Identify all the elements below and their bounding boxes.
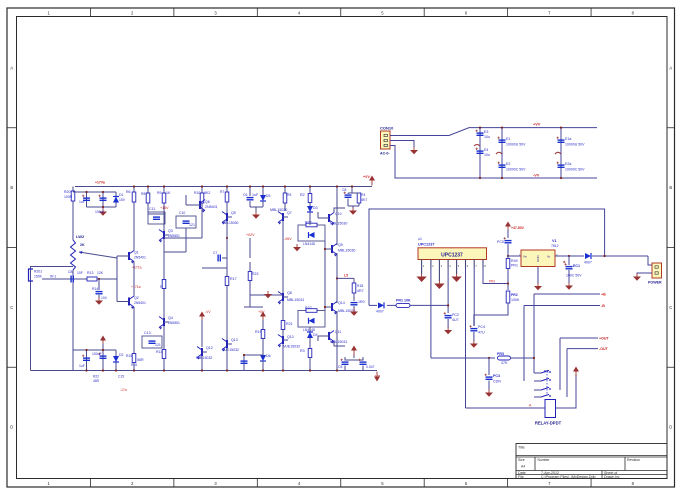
- svg-text:100uF: 100uF: [95, 210, 105, 214]
- svg-text:D4: D4: [313, 333, 318, 337]
- svg-text:Q8: Q8: [287, 291, 292, 295]
- svg-text:C: C: [10, 305, 13, 310]
- svg-text:10000U 50V: 10000U 50V: [565, 143, 585, 147]
- svg-text:10F: 10F: [77, 271, 83, 275]
- svg-text:R2: R2: [300, 193, 305, 197]
- svg-text:R22: R22: [305, 306, 312, 310]
- svg-text:RELAY-DPDT: RELAY-DPDT: [535, 421, 562, 426]
- svg-text:CON10: CON10: [380, 126, 394, 131]
- svg-text:+17Va: +17Va: [95, 181, 105, 185]
- svg-text:100uF: 100uF: [92, 352, 102, 356]
- svg-text:POWER: POWER: [648, 281, 662, 285]
- svg-text:V1: V1: [552, 239, 557, 243]
- svg-text:R5: R5: [287, 193, 291, 197]
- svg-text:PR2: PR2: [511, 293, 518, 297]
- svg-text:Drawn by:: Drawn by:: [604, 475, 620, 479]
- svg-text:+16V: +16V: [160, 206, 169, 210]
- svg-text:-VV: -VV: [205, 310, 211, 314]
- svg-text:E1: E1: [506, 137, 510, 141]
- svg-text:MBL15030: MBL15030: [270, 208, 287, 212]
- svg-text:MJE15032: MJE15032: [196, 356, 212, 360]
- svg-text:Q4: Q4: [168, 316, 173, 320]
- svg-text:0.047: 0.047: [366, 365, 375, 369]
- svg-text:4K7: 4K7: [361, 198, 367, 202]
- svg-text:Size: Size: [518, 458, 525, 462]
- svg-text:PC4: PC4: [478, 325, 485, 329]
- svg-text:121: 121: [155, 343, 161, 347]
- svg-text:Q10: Q10: [335, 212, 342, 216]
- svg-text:u1: u1: [418, 237, 422, 241]
- svg-text:Q5: Q5: [231, 211, 236, 215]
- svg-text:+B: +B: [601, 293, 606, 297]
- svg-text:2N5551: 2N5551: [168, 321, 180, 325]
- svg-text:+171a: +171a: [131, 285, 141, 289]
- svg-text:UPC1237: UPC1237: [441, 253, 463, 259]
- svg-text:Q9: Q9: [338, 243, 343, 247]
- svg-text:Revision: Revision: [627, 458, 640, 462]
- svg-text:Q14: Q14: [338, 301, 345, 305]
- svg-text:D2: D2: [119, 353, 124, 357]
- svg-text:1uF: 1uF: [79, 200, 85, 204]
- svg-text:PIN: PIN: [489, 280, 495, 284]
- svg-text:Q13: Q13: [231, 338, 238, 342]
- svg-text:D1: D1: [119, 193, 124, 197]
- svg-text:R7: R7: [220, 190, 224, 194]
- svg-text:L5: L5: [344, 274, 348, 278]
- svg-text:10000C 50V: 10000C 50V: [565, 168, 585, 172]
- svg-text:R22: R22: [305, 221, 312, 225]
- svg-text:+OUT: +OUT: [599, 337, 609, 341]
- svg-text:C5: C5: [338, 365, 343, 369]
- svg-text:LN4148: LN4148: [303, 242, 315, 246]
- svg-text:R18: R18: [357, 284, 363, 288]
- svg-text:E2a: E2a: [565, 162, 571, 166]
- svg-text:Vin: Vin: [523, 255, 527, 259]
- svg-text:47U: 47U: [478, 331, 485, 335]
- svg-text:B: B: [669, 185, 672, 190]
- svg-text:+02V: +02V: [246, 233, 255, 237]
- svg-text:4007: 4007: [584, 261, 592, 265]
- svg-text:IN 1: IN 1: [50, 275, 56, 279]
- svg-text:1uF: 1uF: [252, 193, 259, 197]
- svg-text:12K: 12K: [97, 271, 104, 275]
- svg-text:Q7: Q7: [287, 211, 292, 215]
- svg-text:R16: R16: [131, 363, 137, 367]
- svg-text:46R: 46R: [93, 379, 100, 383]
- svg-text:R9: R9: [157, 191, 161, 195]
- svg-text:GND: GND: [536, 255, 540, 263]
- svg-text:R23: R23: [252, 272, 258, 276]
- svg-text:R3: R3: [300, 349, 305, 353]
- svg-text:PC3: PC3: [493, 374, 500, 378]
- svg-text:R10: R10: [194, 191, 200, 195]
- svg-text:150K: 150K: [34, 275, 43, 279]
- svg-text:C8: C8: [68, 270, 73, 274]
- svg-text:Q3: Q3: [168, 229, 173, 233]
- svg-text:10000C 50V: 10000C 50V: [506, 168, 526, 172]
- svg-text:+47-50V: +47-50V: [511, 226, 525, 230]
- svg-text:A4: A4: [521, 465, 525, 469]
- svg-text:D5: D5: [266, 194, 270, 198]
- svg-text:PR1: PR1: [511, 264, 518, 268]
- svg-text:8K2: 8K2: [204, 191, 210, 195]
- svg-text:D: D: [669, 425, 672, 430]
- svg-text:AC-0-: AC-0-: [380, 152, 390, 156]
- svg-text:C15: C15: [118, 375, 124, 379]
- svg-text:Title: Title: [518, 445, 525, 449]
- svg-text:1uF: 1uF: [79, 364, 85, 368]
- svg-text:Q13: Q13: [287, 335, 294, 339]
- svg-text:2K: 2K: [80, 243, 85, 247]
- svg-text:D6: D6: [266, 354, 271, 358]
- svg-text:+171a: +171a: [132, 266, 142, 270]
- svg-text:121: 121: [189, 223, 195, 227]
- svg-text:R22: R22: [93, 375, 99, 379]
- svg-text:Q1: Q1: [134, 251, 139, 255]
- svg-text:MBL15031: MBL15031: [330, 340, 347, 344]
- svg-text:C: C: [669, 305, 672, 310]
- svg-text:2N5401: 2N5401: [134, 256, 146, 260]
- svg-text:EC1: EC1: [573, 264, 580, 268]
- svg-text:100R: 100R: [64, 195, 73, 199]
- svg-text:B: B: [10, 185, 13, 190]
- svg-text:-VV: -VV: [533, 174, 540, 178]
- svg-text:1R0: 1R0: [358, 300, 365, 304]
- svg-text:C10: C10: [179, 211, 185, 215]
- svg-text:D: D: [10, 425, 13, 430]
- svg-text:MJE15032: MJE15032: [283, 345, 300, 349]
- svg-text:R17: R17: [230, 277, 237, 281]
- svg-text:C11: C11: [149, 207, 155, 211]
- svg-text:E4: E4: [484, 148, 488, 152]
- svg-text:10u: 10u: [484, 135, 490, 139]
- svg-text:R8: R8: [141, 192, 145, 196]
- svg-text:A: A: [669, 65, 672, 70]
- svg-text:-B: -B: [601, 304, 605, 308]
- svg-text:R21: R21: [286, 322, 293, 326]
- svg-text:Q11: Q11: [335, 330, 341, 334]
- svg-text:MBL15031: MBL15031: [287, 298, 304, 302]
- svg-text:UPC1237: UPC1237: [418, 242, 434, 246]
- svg-text:R19: R19: [255, 330, 262, 334]
- svg-text:MBL15030: MBL15030: [338, 249, 355, 253]
- svg-text:4R7: 4R7: [357, 289, 364, 293]
- svg-text:C7: C7: [213, 251, 217, 255]
- svg-text:E2: E2: [506, 162, 510, 166]
- svg-text:-06V: -06V: [284, 237, 292, 241]
- svg-text:4007: 4007: [376, 310, 384, 314]
- svg-text:-OUT: -OUT: [599, 347, 609, 351]
- svg-text:MBL15030: MBL15030: [330, 222, 347, 226]
- svg-text:15V: 15V: [119, 198, 126, 202]
- svg-text:C6: C6: [243, 193, 247, 197]
- svg-text:1K: 1K: [166, 191, 171, 195]
- svg-text:R11: R11: [156, 350, 162, 354]
- svg-text:104: 104: [101, 296, 107, 300]
- svg-text:MBL15030: MBL15030: [222, 221, 239, 225]
- svg-text:7812: 7812: [551, 244, 559, 248]
- svg-text:File: File: [518, 475, 524, 479]
- svg-text:56R: 56R: [137, 358, 144, 362]
- svg-text:+VV: +VV: [363, 175, 370, 179]
- svg-text:PR3: PR3: [497, 352, 504, 356]
- svg-text:2N5401: 2N5401: [205, 205, 218, 209]
- svg-text:MJE15032: MJE15032: [222, 348, 239, 352]
- svg-text:R4: R4: [361, 193, 365, 197]
- svg-text:LW2: LW2: [76, 234, 85, 239]
- svg-text:Q12: Q12: [206, 346, 213, 350]
- svg-text:C:\Program Files\..\MyDesign.D: C:\Program Files\..\MyDesign.Ddb: [541, 475, 596, 479]
- svg-text:10u: 10u: [484, 153, 490, 157]
- svg-text:100C 50V: 100C 50V: [566, 274, 582, 278]
- svg-text:R201: R201: [34, 270, 42, 274]
- svg-text:Vo: Vo: [547, 255, 551, 259]
- svg-text:-17a: -17a: [120, 388, 127, 392]
- svg-text:R16: R16: [126, 354, 132, 358]
- svg-text:CDN: CDN: [493, 380, 501, 384]
- svg-text:47K: 47K: [501, 361, 508, 365]
- svg-text:100K: 100K: [511, 298, 520, 302]
- svg-text:A: A: [10, 65, 13, 70]
- svg-text:+VV: +VV: [533, 123, 541, 127]
- svg-text:Q6: Q6: [205, 200, 210, 204]
- svg-text:Number: Number: [538, 458, 551, 462]
- svg-text:R13: R13: [87, 271, 93, 275]
- svg-text:10000U 50V: 10000U 50V: [506, 143, 526, 147]
- svg-text:PC5: PC5: [497, 240, 504, 244]
- svg-text:R14: R14: [92, 287, 98, 291]
- svg-text:2N5401: 2N5401: [134, 301, 146, 305]
- svg-text:E3: E3: [484, 130, 488, 134]
- svg-text:C8: C8: [342, 188, 346, 192]
- svg-text:E1a: E1a: [565, 137, 571, 141]
- svg-text:PC2: PC2: [452, 313, 459, 317]
- svg-text:C13: C13: [144, 331, 151, 335]
- svg-text:4U7: 4U7: [452, 318, 459, 322]
- svg-text:Q2: Q2: [134, 296, 139, 300]
- svg-text:D3: D3: [313, 206, 318, 210]
- svg-text:2N5551: 2N5551: [168, 234, 180, 238]
- svg-text:R20: R20: [64, 190, 70, 194]
- svg-text:R49: R49: [511, 259, 518, 263]
- svg-text:PR1 10K: PR1 10K: [396, 299, 411, 303]
- svg-text:R6: R6: [126, 190, 131, 194]
